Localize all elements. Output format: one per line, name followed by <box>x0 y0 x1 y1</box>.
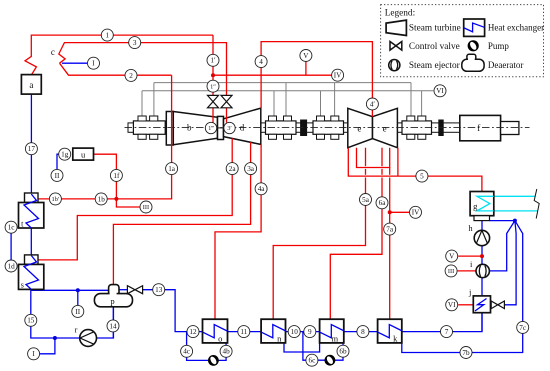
wire extraction 4a <box>215 144 261 319</box>
node 1'' <box>207 80 219 92</box>
svg-text:1d: 1d <box>8 262 16 270</box>
junction dot 1b <box>114 197 118 201</box>
node 4b <box>220 345 232 357</box>
svg-text:V: V <box>449 253 455 261</box>
svg-text:7c: 7c <box>519 324 526 332</box>
turbine d <box>224 108 261 144</box>
svg-text:IV: IV <box>412 209 420 217</box>
wire extraction 6a to hx m <box>381 169 383 175</box>
turbine b-d center block <box>218 116 224 139</box>
turbine b <box>173 112 217 145</box>
wire deaerator to valve <box>119 289 127 291</box>
svg-text:3a: 3a <box>247 165 255 173</box>
svg-text:1b′: 1b′ <box>52 196 60 203</box>
junction dot I tap <box>53 336 57 340</box>
boiler a <box>21 75 41 95</box>
wire gland drop d-right-1 <box>273 91 275 116</box>
wire extraction 2a to hx s <box>38 138 232 260</box>
svg-text:Control valve: Control valve <box>409 42 460 52</box>
svg-text:Deaerator: Deaerator <box>488 60 523 70</box>
wire gland header 1 <box>154 82 411 84</box>
svg-text:u: u <box>81 149 86 159</box>
wire gland drop d-right-2 <box>285 83 287 116</box>
feed pump r <box>80 330 97 347</box>
node 1f <box>110 169 122 181</box>
drain pump m <box>325 355 336 366</box>
svg-text:n: n <box>277 333 282 343</box>
wire gland drop b-left-2 <box>153 83 155 117</box>
wire valve to line 13 <box>143 290 203 332</box>
node 7b <box>460 347 472 359</box>
legend box (dotted border) <box>381 5 544 77</box>
wire condensate k to j <box>402 313 482 332</box>
svg-text:2a: 2a <box>229 165 237 173</box>
node 7 <box>441 326 453 338</box>
node 15 <box>25 314 37 326</box>
legend control valve symbol <box>390 42 402 51</box>
turbine inlet valve 2 <box>221 95 232 107</box>
junction dot V tap <box>480 254 484 258</box>
junction dot line1/gland header <box>211 73 215 77</box>
node I bottom <box>28 348 40 360</box>
node VI top <box>434 85 446 97</box>
svg-text:4a: 4a <box>258 185 266 193</box>
svg-text:7a: 7a <box>386 226 394 234</box>
box u <box>73 148 94 160</box>
deaerator p <box>94 285 132 307</box>
node 9 <box>304 326 316 338</box>
node 5a <box>360 194 372 206</box>
wire hub to ejector return <box>489 221 515 271</box>
junction dot hotwell hub <box>513 219 517 223</box>
wire II tap left <box>77 290 79 305</box>
wire exhaust header inner <box>357 148 390 168</box>
shaft centerline <box>125 127 530 129</box>
junction dot II left <box>76 288 80 292</box>
steam ejector i <box>476 264 489 277</box>
wire condensate n-m <box>286 331 320 333</box>
svg-text:1c: 1c <box>8 224 15 232</box>
legend heat exchanger symbol <box>464 19 485 36</box>
svg-text:III: III <box>448 268 454 275</box>
svg-text:e: e <box>357 123 361 133</box>
svg-text:4b: 4b <box>223 348 231 356</box>
svg-text:1: 1 <box>106 32 110 40</box>
wire hx n-m cascade <box>284 343 320 352</box>
wire hx k drain 7b <box>402 221 523 353</box>
svg-text:j: j <box>468 287 471 297</box>
node II mid <box>51 169 63 181</box>
svg-text:o: o <box>218 333 222 343</box>
svg-text:Pump: Pump <box>488 41 510 51</box>
junction dot 7a-IV <box>388 210 392 214</box>
coupling 1 <box>301 120 307 136</box>
wire III tap ejector <box>458 270 476 272</box>
exciter box <box>501 122 519 135</box>
wire main steam line 1 with break <box>25 35 213 75</box>
svg-text:VI: VI <box>448 301 456 309</box>
drain pump o <box>208 355 219 366</box>
turbine inlet valve 1 <box>208 95 219 107</box>
gland box left of turbine e <box>313 116 344 139</box>
node 6a <box>376 197 388 209</box>
svg-text:6a: 6a <box>379 199 387 207</box>
svg-text:6b: 6b <box>339 348 347 356</box>
svg-text:4c: 4c <box>183 348 190 356</box>
node 6b <box>337 345 349 357</box>
svg-text:13: 13 <box>155 286 163 294</box>
node IV right <box>410 206 422 218</box>
svg-text:r: r <box>75 324 78 334</box>
node 14 <box>107 320 119 332</box>
svg-text:9: 9 <box>308 328 312 336</box>
node 1 <box>101 29 113 41</box>
svg-text:4: 4 <box>259 58 263 66</box>
wire crossover d to e <box>261 42 372 117</box>
svg-text:a: a <box>29 80 33 90</box>
wire exhaust right leg <box>397 148 399 176</box>
wire hx m drain loop <box>303 332 343 361</box>
node 12 <box>187 326 199 338</box>
wire feedwater t-s <box>30 202 32 290</box>
svg-text:b: b <box>187 123 192 133</box>
svg-text:11: 11 <box>240 328 247 336</box>
wire hx o drain loop <box>187 332 227 361</box>
wire line 3 with break <box>59 43 227 96</box>
condenser g <box>470 192 494 216</box>
wire condensate s to deaerator <box>31 289 109 291</box>
wire box u line <box>94 154 117 199</box>
svg-text:10: 10 <box>291 328 299 336</box>
node 2 <box>125 69 137 81</box>
svg-text:7: 7 <box>445 328 449 336</box>
svg-text:2: 2 <box>129 72 133 80</box>
svg-text:VI: VI <box>436 87 444 95</box>
wire extraction 5a upper <box>365 148 367 167</box>
node 7a <box>384 223 396 235</box>
node 6c <box>306 354 318 366</box>
node 3' on shaft <box>224 122 235 133</box>
svg-text:k: k <box>393 333 398 343</box>
node I top <box>88 57 100 69</box>
node III left <box>140 201 152 213</box>
svg-text:Heat exchanger: Heat exchanger <box>488 23 544 33</box>
wire 1g to II <box>57 154 59 169</box>
condenser pedestal <box>474 216 490 221</box>
wire condensate main vertical <box>481 221 483 296</box>
gland box left of turbine b <box>133 116 165 139</box>
shaft <box>128 123 519 132</box>
svg-text:II: II <box>75 308 80 316</box>
condensate pump h <box>474 230 489 245</box>
svg-text:1a: 1a <box>168 165 176 173</box>
wire gland drop e-right-2 <box>421 91 423 116</box>
svg-text:IV: IV <box>334 72 342 80</box>
svg-text:5: 5 <box>420 173 424 181</box>
node 4' <box>366 98 378 110</box>
node 13 <box>153 284 165 296</box>
wire cooling water supply <box>494 195 536 197</box>
svg-text:7b: 7b <box>462 349 470 357</box>
node 1g <box>59 148 71 160</box>
svg-text:1g: 1g <box>61 151 69 159</box>
wire IV tap lower <box>390 211 409 213</box>
wire gland drop e-left-1 <box>320 91 322 116</box>
wire extraction 5a to hx n <box>365 169 367 175</box>
wire cooling water return <box>494 210 538 212</box>
svg-text:Steam ejector: Steam ejector <box>409 61 461 71</box>
wire VI tap gland condenser <box>458 304 473 306</box>
wire 1c-1d line <box>10 222 12 272</box>
node VI right <box>446 299 458 311</box>
generator f <box>460 115 501 140</box>
svg-text:4′: 4′ <box>370 100 376 108</box>
wire extraction 3a to deaerator <box>113 142 250 285</box>
wire hx t drain line 1b <box>38 198 116 200</box>
legend steam turbine symbol <box>386 20 406 35</box>
wire j outlet down <box>481 311 483 331</box>
cooling water break mark <box>534 189 539 219</box>
turbine e left flow <box>348 108 373 147</box>
svg-text:f: f <box>477 123 480 133</box>
node 4a <box>255 183 267 195</box>
node 17 <box>25 143 37 155</box>
node IV top <box>332 69 344 81</box>
node III right <box>445 265 457 277</box>
node 5 <box>416 170 428 182</box>
svg-text:1f: 1f <box>113 172 120 180</box>
wire V tap condensate <box>458 255 482 257</box>
svg-text:V: V <box>303 52 309 60</box>
svg-text:s: s <box>21 281 24 290</box>
svg-text:15: 15 <box>27 317 35 325</box>
heat exchanger k <box>378 319 403 343</box>
wire extraction 6a upper <box>381 148 383 167</box>
node 1b' <box>49 193 61 205</box>
node 11 <box>238 326 250 338</box>
turbine b-d center block divider <box>218 127 224 129</box>
wire III tap lower left <box>116 199 139 207</box>
wire extraction 7a to hx k <box>389 168 391 175</box>
svg-text:1b: 1b <box>98 195 106 203</box>
svg-text:12: 12 <box>189 328 197 336</box>
wire line 1 drop to valves <box>212 35 214 95</box>
wire feedwater main left <box>30 94 32 193</box>
svg-text:1″: 1″ <box>210 83 216 90</box>
heat exchanger m <box>320 319 345 343</box>
wire line 2 with break <box>60 63 172 75</box>
wire exhaust header outer to condenser line 5 <box>348 148 482 192</box>
wire V tap <box>305 62 307 76</box>
wire valve 2 to turbine <box>226 108 228 123</box>
svg-text:Legend:: Legend: <box>385 8 415 18</box>
svg-text:III: III <box>143 204 149 211</box>
node 3a <box>245 163 257 175</box>
legend steam ejector symbol <box>389 60 400 71</box>
legend pump symbol <box>468 40 479 51</box>
wire deaerator feed 14 <box>112 306 114 338</box>
wire gland drop e-right-1 <box>410 83 412 116</box>
node 1' <box>207 54 219 66</box>
gland box right of turbine d <box>266 116 297 139</box>
gland steam condenser j <box>473 296 490 313</box>
node 3 <box>129 37 141 49</box>
svg-text:1‴: 1‴ <box>208 126 214 132</box>
wire condensate o-n <box>228 331 262 333</box>
turbine e right flow <box>373 108 398 147</box>
node 4c <box>181 345 193 357</box>
wire valve 1 to turbine <box>212 108 214 123</box>
wire I tap <box>40 338 55 354</box>
wire I top stub <box>62 62 87 64</box>
svg-text:6c: 6c <box>309 357 316 365</box>
svg-text:c: c <box>51 47 55 57</box>
wire gland steam header to IV <box>213 74 338 76</box>
svg-text:3′: 3′ <box>227 125 232 132</box>
node 1''' on shaft <box>205 122 216 133</box>
wire gland header 2 <box>142 90 433 92</box>
heat exchanger t <box>19 193 44 228</box>
svg-text:5a: 5a <box>362 196 370 204</box>
node 1b <box>95 193 107 205</box>
node 4 <box>255 56 267 68</box>
svg-text:14: 14 <box>109 322 117 330</box>
svg-text:p: p <box>110 296 114 306</box>
wire gland drop e-left-2 <box>334 83 336 116</box>
node 7c <box>517 321 529 333</box>
svg-text:17: 17 <box>28 145 36 153</box>
svg-text:1′: 1′ <box>210 57 216 65</box>
gland box right of turbine e <box>402 116 432 139</box>
wire feedwater s to pump r <box>31 289 114 338</box>
valve after j <box>491 301 504 309</box>
svg-text:3: 3 <box>133 39 137 47</box>
svg-text:Steam turbine: Steam turbine <box>409 24 461 34</box>
deaerator outlet valve <box>127 286 142 294</box>
node II bottom <box>72 305 84 317</box>
node V right <box>446 250 458 262</box>
node 2a <box>226 163 238 175</box>
node V top <box>300 50 312 62</box>
heat exchanger o <box>203 319 228 343</box>
turbine b inlet block <box>166 112 173 146</box>
wire gland drop b-left-1 <box>141 91 143 117</box>
wire condensate m-k <box>344 331 378 333</box>
coupling 2 <box>439 120 443 136</box>
wire condenser to hotwell hub <box>490 220 515 222</box>
heat exchanger n <box>261 319 286 343</box>
svg-text:d: d <box>240 123 245 133</box>
legend deaerator symbol <box>462 54 484 71</box>
wire hub to gland condenser valve <box>505 221 516 305</box>
node 1a <box>166 163 178 175</box>
node 1c <box>5 221 17 233</box>
svg-text:m: m <box>331 333 338 343</box>
svg-text:e: e <box>383 123 387 133</box>
svg-text:8: 8 <box>361 328 365 336</box>
wire line 2 into turbine b / extraction 1a <box>116 75 171 199</box>
node 10 <box>288 326 300 338</box>
heat exchanger s <box>19 255 44 290</box>
svg-text:II: II <box>55 172 60 180</box>
svg-text:g: g <box>473 201 478 211</box>
node 1d <box>5 260 17 272</box>
node 8 <box>357 326 369 338</box>
